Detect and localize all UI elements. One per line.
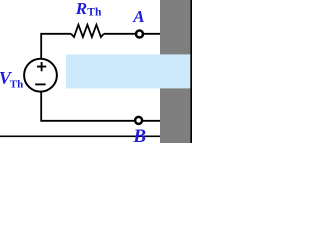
wire bottom	[41, 92, 160, 121]
resistor RTh	[71, 25, 104, 37]
black box (load network)	[160, 0, 191, 143]
wire top-right	[104, 33, 160, 35]
svg-text:Th: Th	[87, 7, 102, 19]
svg-text:Th: Th	[10, 78, 23, 90]
wire top-left	[41, 34, 71, 59]
voltage source VTh	[24, 59, 57, 92]
svg-text:B: B	[132, 126, 146, 143]
svg-text:A: A	[132, 7, 144, 26]
highlight band	[66, 54, 190, 88]
terminal A	[136, 31, 143, 38]
svg-text:R: R	[75, 0, 87, 18]
terminal B	[135, 117, 142, 124]
